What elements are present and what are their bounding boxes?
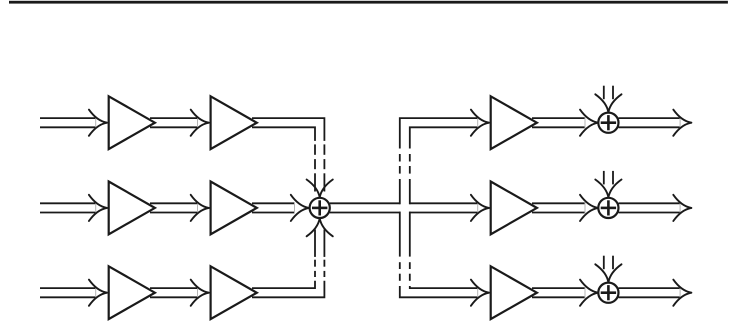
wire: double line amplifier to summing junction, right row 1	[532, 117, 585, 119]
wire: right bus dashed segments (upper)	[399, 154, 401, 162]
amplifier C1	[109, 266, 155, 319]
wire: output double line, right row 1	[619, 117, 681, 119]
wire: left bus solid segment below central junction	[314, 230, 316, 257]
summing junction S0 (central): circle	[310, 198, 330, 218]
amplifier B3	[491, 182, 537, 235]
wire: right bus solid above crossing	[399, 179, 401, 204]
arrowhead: top stub arrow into summing junction S2	[595, 180, 608, 198]
wire: right bus solid below crossing	[399, 212, 401, 257]
wire: right bus bottom corner to row 3 (inner)	[410, 286, 478, 288]
arrowhead: input arrow into first amplifier, row 2	[89, 195, 107, 208]
summing junction S1: circle	[598, 113, 618, 133]
arrowhead: output arrow, row 2	[673, 195, 691, 208]
arrowhead: arrow into summing junction S2, row 2	[580, 195, 598, 208]
wire: vertical input stub above summing junction, row 1	[603, 86, 605, 100]
summing junction S1: plus sign	[601, 121, 616, 124]
wire: double line amplifier to summing junction, right row 3	[532, 287, 585, 289]
wire: row 3 output turning up into bus (inner corner)	[252, 281, 315, 288]
wire: left bus solid segment above central junction	[314, 173, 316, 191]
arrowhead: top stub arrow into summing junction S1	[595, 94, 608, 112]
wire: double line between amplifiers, row 2	[150, 202, 198, 204]
summing junction S3: plus sign	[601, 291, 616, 294]
top horizontal rule of page	[9, 1, 728, 4]
wire: input double line, row 1	[40, 117, 96, 119]
arrowhead: bus arrow from above into central summing junction	[307, 180, 320, 198]
amplifier A1	[109, 96, 155, 149]
arrowhead: output arrow, row 3	[673, 280, 691, 293]
wire: input double line, row 3	[40, 287, 96, 289]
arrowhead: arrow into right amplifier, row 3	[471, 280, 489, 293]
wire: right bus top corner to row 1 (inner)	[410, 127, 478, 148]
wire: right bus bottom corner to row 3 (outer)	[400, 286, 478, 297]
arrowhead: arrow into second amplifier, row 1	[191, 110, 209, 123]
wire: left bus dashed segments (lower)	[314, 260, 316, 267]
wire: right bus top corner to row 1 (outer)	[400, 118, 478, 148]
summing junction S3: circle	[598, 283, 618, 303]
arrowhead: input arrow into first amplifier, row 3	[89, 280, 107, 293]
arrowhead: arrow into second amplifier, row 2	[191, 195, 209, 208]
wire: output double line, right row 2	[619, 202, 681, 204]
wire: row 2 double line into central summing junction	[252, 202, 295, 204]
wire: double line between amplifiers, row 3	[150, 287, 198, 289]
arrowhead: arrow into right amplifier, row 1	[471, 110, 489, 123]
amplifier C2	[211, 266, 257, 319]
arrowhead: output arrow, row 1	[673, 110, 691, 123]
wire: double line amplifier to summing junction, right row 2	[532, 202, 585, 204]
wire end caps (faint)	[95, 117, 97, 128]
summing junction S2: circle	[598, 198, 618, 218]
amplifier C3	[491, 266, 537, 319]
arrowhead: row 2 arrow into central summing junction	[291, 195, 309, 208]
amplifier B1	[109, 182, 155, 235]
wire: vertical input stub above summing junction, row 3	[603, 256, 605, 270]
wire: left bus dashed segments (upper)	[314, 144, 316, 154]
arrowhead: arrow into right amplifier, row 2	[471, 195, 489, 208]
wire: vertical input stub above summing junction, row 2	[603, 171, 605, 185]
amplifier B2	[211, 182, 257, 235]
arrowhead: arrow into summing junction S1, row 1	[580, 110, 598, 123]
wire: right bus dashed segments (lower)	[399, 262, 401, 269]
wire: output double line, right row 3	[619, 287, 681, 289]
arrowhead: input arrow into first amplifier, row 1	[89, 110, 107, 123]
arrowhead: arrow into summing junction S3, row 3	[580, 280, 598, 293]
arrowhead: bus arrow from below into central summing junction	[307, 218, 320, 236]
wire: central junction output double line (left of crossing)	[330, 202, 401, 204]
wire: central junction output double line (right of crossing)	[409, 202, 478, 204]
summing junction S2: plus sign	[601, 207, 616, 210]
amplifier A2	[211, 96, 257, 149]
wire: row 3 output turning up into bus (outer corner)	[252, 281, 324, 298]
wire: row 1 output turning down into bus (outer corner)	[252, 118, 324, 141]
wire: double line between amplifiers, row 1	[150, 117, 198, 119]
wire: input double line, row 2	[40, 202, 96, 204]
arrowhead: arrow into second amplifier, row 3	[191, 280, 209, 293]
wire: row 1 output turning down into bus (inner corner)	[252, 127, 315, 141]
amplifier A3	[491, 96, 537, 149]
summing junction S0 (central): plus sign	[312, 207, 327, 210]
arrowhead: top stub arrow into summing junction S3	[595, 264, 608, 282]
